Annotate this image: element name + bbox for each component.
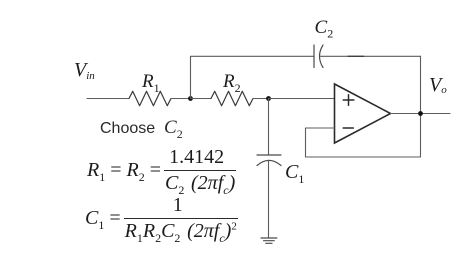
capacitor C2 [314, 45, 323, 68]
wire feedback from minus input down around to output node [306, 114, 421, 158]
label R2 [223, 71, 241, 96]
wire node A to R2 [191, 98, 212, 100]
wire node A up and right to C2 [191, 56, 315, 98]
resistor R2 [211, 91, 253, 105]
wire C2 to output branch corner [320, 55, 420, 57]
label C2 [315, 17, 334, 42]
node B junction R2/C1/op-amp [266, 96, 271, 101]
wire node B to op-amp plus input [269, 98, 335, 100]
wire darker overlap segment on C2 output line [348, 55, 364, 57]
op-amp plus symbol [343, 95, 354, 106]
ground [261, 238, 277, 243]
wire R2 to node B [253, 98, 269, 100]
label R1 [142, 71, 160, 96]
wire input Vin to R1 [87, 98, 129, 100]
op-amp minus symbol [343, 127, 353, 129]
wire R1 to node A [171, 98, 191, 100]
label Vo [429, 74, 447, 97]
text choose C2 [100, 117, 183, 142]
wire node B down to C1 [268, 99, 270, 156]
formula C1 = 1 / (R1 R2 C2 (2 pi fc)^2) [85, 194, 238, 246]
label Vin [74, 59, 95, 82]
wire corner down to output node [420, 56, 422, 113]
wire op-amp output to Vo [391, 113, 451, 115]
op-amp U1 [335, 84, 391, 143]
node output junction [418, 111, 423, 116]
wire C1 to ground [268, 160, 270, 238]
formula R1 = R2 = 1.4142 / (C2 (2 pi fc)) [87, 146, 236, 198]
resistor R1 [129, 91, 171, 105]
capacitor C1 [257, 155, 281, 166]
label C1 [285, 161, 304, 187]
node A junction R1/R2/C2 [188, 96, 193, 101]
